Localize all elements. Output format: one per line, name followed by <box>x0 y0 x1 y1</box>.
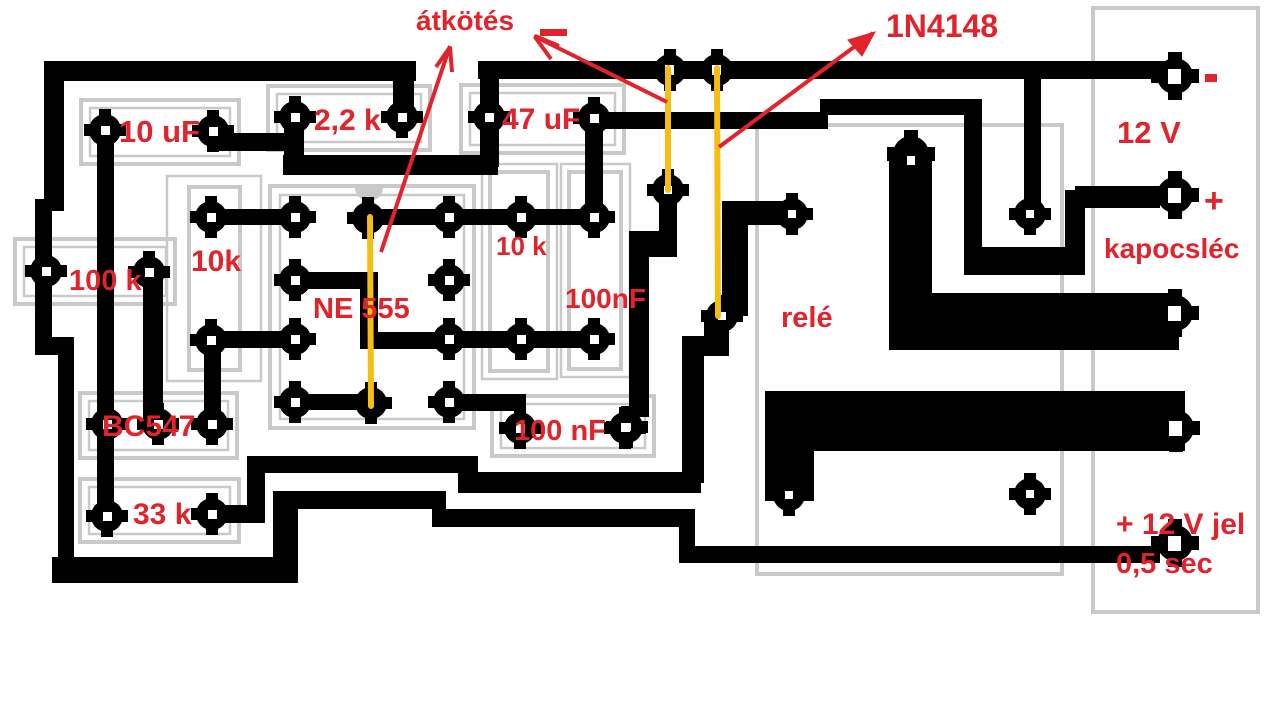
pad C1.1 <box>84 109 126 151</box>
wire R3 top pad to U1 pin <box>211 209 296 225</box>
wire bottom border horizontal <box>52 557 293 583</box>
svg-text:10 k: 10 k <box>496 231 547 261</box>
wire left border jog step <box>35 337 73 355</box>
pad jumper J2 bottom <box>701 295 743 337</box>
pad terminal 4 <box>1152 404 1200 452</box>
svg-text:2,2 k: 2,2 k <box>314 104 381 137</box>
svg-text:+ 12 V jel: + 12 V jel <box>1116 508 1245 541</box>
svg-text:relé: relé <box>781 302 833 334</box>
capacitor C1 10uF footprint box <box>81 100 239 164</box>
pad U1 pin4 <box>274 381 316 423</box>
wire relay pad K1.1 to jumper2 (h) <box>722 201 785 225</box>
wire 33k right pad link <box>205 505 265 523</box>
svg-text:47 uF: 47 uF <box>502 103 580 136</box>
wire left border vertical (lower) <box>58 337 74 577</box>
wire 47uF left pad stub <box>480 70 499 167</box>
pad K1.3 <box>1009 193 1051 235</box>
hole U1.8 <box>445 213 454 222</box>
hole U1.3 <box>291 335 300 344</box>
resistor R5 33k footprint box <box>80 479 239 542</box>
hole U1.5 <box>445 398 454 407</box>
pad Q1 emitter <box>86 403 128 445</box>
pad R1.1 <box>274 96 316 138</box>
hole J1 bottom <box>664 186 672 194</box>
wire jumper2 pad down jog connector <box>682 336 729 356</box>
pad jumper J1 bottom <box>647 169 689 211</box>
pad U1 pin7 <box>428 259 470 301</box>
wire left border vertical (upper) <box>44 61 64 211</box>
pad node C4-J1 <box>606 406 648 448</box>
arrow atkotes to J3 <box>381 46 452 252</box>
pad jumper J1 top <box>649 49 691 91</box>
pad C4.1 <box>499 407 541 449</box>
wire relay pad K1.1 to jumper2 (v) <box>722 201 748 316</box>
pad U1 pin6 <box>428 318 470 360</box>
wire relay contact wide vertical <box>765 391 814 501</box>
hole J2 bottom <box>718 312 726 320</box>
pad C3.2 <box>573 318 615 360</box>
svg-text:10k: 10k <box>191 245 241 278</box>
wire 100k right pad down to Q1 base <box>143 271 163 426</box>
pad jumper J3 bottom <box>350 382 392 424</box>
hole K1.3 <box>1026 210 1034 218</box>
hole U1.2 <box>291 276 300 285</box>
pad U1 pin1 <box>274 196 316 238</box>
hole C4.2 <box>621 423 630 432</box>
wire R3 bottom pad down to Q1 collector <box>204 340 221 425</box>
hole R1.2 <box>398 113 407 122</box>
terminal strip (kapocslec) box <box>1093 8 1258 612</box>
pad K1.2 coil <box>887 130 935 178</box>
svg-text:33 k: 33 k <box>133 498 192 531</box>
hole T4 <box>1169 421 1182 436</box>
wire jumper1 pad jog (h) <box>629 231 677 257</box>
hole C3.2 <box>590 335 599 344</box>
hole R1.1 <box>291 113 300 122</box>
pad K1.4 <box>1009 473 1051 515</box>
hole C2.1 <box>485 113 494 122</box>
wire U1 pin2 Z link horizontal <box>295 272 370 289</box>
svg-text:0,5 sec: 0,5 sec <box>1116 548 1213 580</box>
pad C4.2 <box>604 407 646 449</box>
svg-text:100nF: 100nF <box>565 283 646 314</box>
op-amp/timer U1 NE555 footprint box <box>270 186 474 428</box>
wire jumper2 pad down (v) <box>704 316 729 356</box>
resistor R4 10k footprint box (vertical, right of IC) <box>482 164 557 379</box>
hole Q1.b <box>154 420 163 429</box>
pad R4.2 <box>500 318 542 360</box>
wire jumper1 pad down (v) <box>659 189 677 249</box>
wire jumper2 pad down jog (v) <box>682 336 704 483</box>
pad U1 pin8 <box>428 196 470 238</box>
hole R5.2 <box>208 510 217 519</box>
wire riser from bottom border <box>273 491 298 583</box>
label minus <box>1205 74 1217 82</box>
wire U1 pin6 Z link horizontal <box>360 332 450 349</box>
jumper wire J3 (atkotes) <box>370 217 371 406</box>
pad terminal 2 plus <box>1151 171 1199 219</box>
hole U1.1 <box>291 213 300 222</box>
pad U1 pin2 <box>274 259 316 301</box>
hole R4.1 <box>517 213 526 222</box>
hole C3.1 <box>590 213 599 222</box>
wire relay coil wide vertical <box>889 155 932 350</box>
wire U1 bottom row link <box>295 394 371 410</box>
wire signal band to terminal 5 <box>687 546 1160 563</box>
resistor R1 2,2k footprint box <box>268 86 430 150</box>
pad R2.1 <box>25 250 67 292</box>
pad C2.1 <box>468 96 510 138</box>
hole R3.2 <box>207 336 216 345</box>
hole K1.5 <box>785 491 793 499</box>
pad terminal 3 <box>1151 289 1199 337</box>
wire vertical step down to signal band <box>679 518 695 563</box>
wire jumper1 to C4 right pad (v) <box>629 245 649 417</box>
wire 10uF right pad link <box>213 133 296 151</box>
pad U1 pin5 <box>428 381 470 423</box>
pad Q1 collector <box>191 403 233 445</box>
wire 47uF to +12V terminal (h2) <box>820 99 973 115</box>
hole C2.2 <box>590 114 599 123</box>
pad R5.2 <box>191 493 233 535</box>
wire top rail right segment <box>478 61 1175 79</box>
svg-text:10 uF: 10 uF <box>119 114 200 149</box>
svg-text:100 nF: 100 nF <box>514 415 606 447</box>
svg-text:100 k: 100 k <box>69 265 142 297</box>
hole J2 top <box>712 65 721 75</box>
svg-text:+: + <box>1204 182 1224 220</box>
wire top rail stub down to relay pad <box>1024 75 1041 205</box>
pad jumper J3 top <box>347 197 389 239</box>
transistor Q1 BC547 footprint box <box>80 393 237 458</box>
hole J1 top <box>665 65 674 75</box>
wire band from 33k riser (v) <box>247 456 265 522</box>
wire 47uF to +12V terminal (v1) <box>964 99 982 262</box>
hole Q1.c <box>208 420 217 429</box>
pad R3.1 <box>190 196 232 238</box>
wire band under 2,2k <box>283 155 498 175</box>
wire left border vertical (middle) <box>35 199 52 355</box>
pad jumper J2 top <box>696 49 738 91</box>
pad R4.1 <box>500 196 542 238</box>
wire relay coil wide band to terminal 3 <box>889 293 1179 350</box>
pad K1.5 contact <box>768 474 810 516</box>
pad C2.2 <box>573 97 615 139</box>
arrow atkotes to J1 <box>534 29 667 102</box>
hole R5.1 <box>103 512 112 521</box>
hole U1.7 <box>445 276 454 285</box>
svg-text:BC547: BC547 <box>102 410 195 443</box>
hole K1.2 <box>907 156 915 165</box>
wire 47uF to +12V terminal (v2) <box>1065 190 1085 260</box>
pad C3.1 <box>573 196 615 238</box>
pad terminal 5 signal <box>1151 519 1199 567</box>
pad R2.2 <box>128 251 170 293</box>
resistor R3 10k footprint box (vertical, left of IC) <box>167 176 261 381</box>
wire R3 bottom pad to U1 pin <box>211 331 296 348</box>
PADS <box>25 49 1200 567</box>
wire 2,2k right pad to top rail <box>393 61 414 119</box>
wire U1 pin2 Z link vertical <box>360 272 378 342</box>
hole C1.1 <box>101 126 110 135</box>
hole node C4-J1 <box>623 423 631 431</box>
hole Q1.e <box>103 420 112 429</box>
pad R3.2 <box>190 319 232 361</box>
wire 47uF right pad down to C3 <box>585 118 603 218</box>
wire 47uF to +12V terminal (h4) <box>1075 186 1160 208</box>
wire row 339 to C3 bottom <box>440 331 594 348</box>
pad K1.1 <box>771 193 813 235</box>
relay K1 footprint box <box>757 125 1062 574</box>
JUMPERS <box>370 68 718 406</box>
pad R1.2 <box>381 96 423 138</box>
capacitor C2 47uF footprint box <box>461 85 624 153</box>
pad U1 pin3 <box>274 318 316 360</box>
wire U1 row 217 to C3 top <box>368 209 594 225</box>
hole R4.2 <box>517 335 526 344</box>
hole K1.1 <box>788 210 796 218</box>
resistor R2 100k footprint box <box>15 239 175 304</box>
hole U1.4 <box>291 398 300 407</box>
wire ground band middle <box>273 491 446 509</box>
svg-text:12 V: 12 V <box>1117 115 1181 150</box>
jumper wire J1 <box>665 68 671 190</box>
TRACES <box>35 61 1185 583</box>
hole K1.4 <box>1026 490 1034 498</box>
wire top rail left segment <box>45 61 416 81</box>
wire 47uF to +12V terminal (h3) <box>964 247 1085 275</box>
pad Q1 base <box>137 403 179 445</box>
hole T2 <box>1168 188 1181 203</box>
hole R3.1 <box>207 213 216 222</box>
svg-text:átkötés: átkötés <box>416 5 514 36</box>
svg-text:NE 555: NE 555 <box>313 293 410 325</box>
pad C1.2 <box>192 110 234 152</box>
svg-text:1N4148: 1N4148 <box>886 8 998 44</box>
wire ground band middle lower step <box>432 509 695 527</box>
hole R2.1 <box>42 267 51 276</box>
wire 10uF left column down to 33k <box>97 131 114 521</box>
wire relay contact wide band to terminal 4 <box>765 391 1185 451</box>
capacitor C4 100nF footprint box (horizontal) <box>492 396 654 456</box>
hole C4.1 <box>516 424 525 433</box>
wire band from 33k (h) <box>247 456 478 473</box>
HOLES <box>42 65 1182 551</box>
hole T3 <box>1168 306 1181 321</box>
hole T1 <box>1168 69 1181 84</box>
hole C1.2 <box>209 127 218 136</box>
svg-text:kapocsléc: kapocsléc <box>1104 233 1239 264</box>
hole R2.2 <box>145 268 154 277</box>
arrow 1N4148 to J2 <box>719 32 875 147</box>
jumper wire J2 <box>717 68 718 316</box>
pad terminal 1 minus <box>1151 52 1199 100</box>
hole T5 <box>1168 536 1181 551</box>
pad R5.1 <box>86 495 128 537</box>
hole U1.6 <box>445 335 454 344</box>
wire U1 pin to C4 left pad <box>449 394 526 411</box>
U1 pin1 notch <box>355 188 383 201</box>
wire 47uF right pad to +12V terminal (h1) <box>594 112 828 129</box>
wire band to jumper2 (h) <box>458 472 701 493</box>
capacitor C3 100nF footprint box (vertical) <box>561 164 630 377</box>
wire 2,2k left pad leg <box>284 117 304 175</box>
